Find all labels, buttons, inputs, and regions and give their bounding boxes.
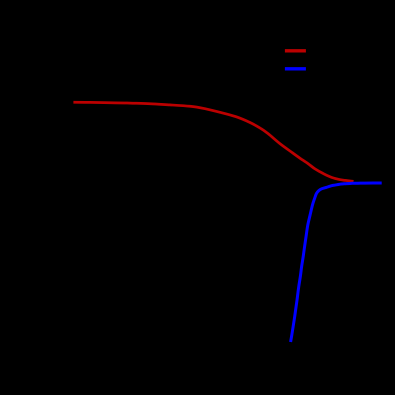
- red curve (decaying series): [73, 102, 353, 181]
- legend blue line sample: [285, 67, 306, 70]
- legend red line sample: [285, 49, 306, 52]
- blue curve (rising series): [291, 183, 382, 342]
